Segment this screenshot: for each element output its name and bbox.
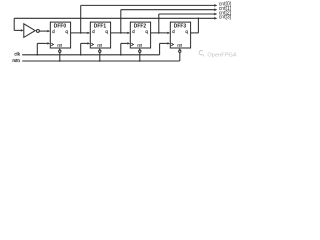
- svg-text:d: d: [52, 29, 55, 34]
- svg-text:d: d: [172, 29, 175, 34]
- svg-text:clk: clk: [14, 51, 20, 56]
- svg-text:DFF3: DFF3: [174, 23, 186, 29]
- svg-text:d: d: [132, 29, 135, 34]
- svg-text:DFF1: DFF1: [94, 23, 106, 29]
- svg-text:rstn: rstn: [12, 58, 20, 63]
- svg-text:rst: rst: [177, 42, 182, 47]
- svg-text:d: d: [92, 29, 95, 34]
- svg-text:q: q: [185, 29, 188, 34]
- svg-text:q: q: [145, 29, 148, 34]
- svg-text:cnt[3]: cnt[3]: [219, 15, 232, 21]
- svg-text:rst: rst: [97, 42, 102, 47]
- svg-text:rst: rst: [57, 42, 62, 47]
- svg-text:q: q: [105, 29, 108, 34]
- svg-text:rst: rst: [137, 42, 142, 47]
- svg-text:DFF2: DFF2: [134, 23, 146, 29]
- svg-text:DFF0: DFF0: [54, 23, 66, 29]
- svg-text:OpenFPGA: OpenFPGA: [207, 53, 237, 59]
- svg-text:q: q: [65, 29, 68, 34]
